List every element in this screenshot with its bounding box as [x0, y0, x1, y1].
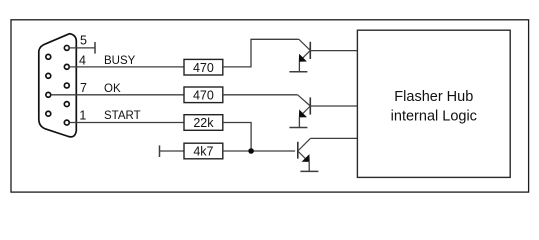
svg-text:BUSY: BUSY — [104, 55, 136, 67]
wire Q1 base to logic box — [310, 50, 357, 52]
svg-text:470: 470 — [193, 88, 214, 102]
DB9 connector J1 outline — [39, 34, 77, 137]
pin 3 circle — [64, 83, 69, 88]
resistor 4k7 — [184, 143, 223, 159]
wire resistor 470 to Q2 collector — [223, 94, 298, 96]
svg-text:470: 470 — [193, 61, 214, 75]
pin 5 circle — [64, 45, 69, 50]
pin 7 circle — [46, 92, 51, 97]
wire resistor 22k to junction — [223, 123, 251, 152]
pin 9 circle — [46, 54, 51, 59]
svg-text:OK: OK — [104, 83, 121, 95]
wire pin 7 to resistor 470 (OK) — [51, 94, 184, 96]
pin 6 circle — [46, 111, 51, 116]
wire terminal to resistor 4k7 — [160, 150, 185, 152]
wire resistor 4k7 to Q3 base — [223, 150, 295, 152]
resistor 470 (BUSY) — [184, 59, 223, 75]
svg-text:internal Logic: internal Logic — [391, 108, 477, 124]
open terminal bar at pin 5 — [94, 42, 96, 54]
transistor Q1 — [299, 39, 311, 72]
svg-text:5: 5 — [80, 34, 87, 48]
wire Q3 collector to logic box — [310, 137, 357, 139]
wire resistor 470 to Q1 collector — [223, 39, 299, 67]
resistor 22k — [184, 115, 223, 131]
wire pin 1 to resistor 22k (START) — [70, 122, 185, 124]
pin 1 circle — [64, 120, 69, 125]
transistor Q2 — [298, 95, 311, 128]
wire Q2 base to logic box — [310, 105, 357, 107]
pin 2 circle — [64, 102, 69, 107]
junction node — [248, 148, 254, 154]
svg-text:22k: 22k — [193, 116, 214, 130]
svg-text:Flasher Hub: Flasher Hub — [394, 89, 473, 105]
wire pin 4 to resistor 470 (BUSY) — [70, 66, 185, 68]
svg-text:4: 4 — [79, 53, 86, 67]
pin 4 circle — [64, 64, 69, 69]
resistor 470 (OK) — [184, 87, 223, 103]
open terminal bar at 4k7 input — [159, 145, 161, 157]
emitter terminal bar Q1 — [289, 71, 307, 73]
svg-text:7: 7 — [80, 81, 87, 95]
emitter terminal bar Q3 — [300, 170, 318, 172]
svg-text:4k7: 4k7 — [193, 145, 213, 159]
svg-text:1: 1 — [79, 108, 86, 122]
wire pin 5 stub — [70, 47, 96, 49]
svg-text:START: START — [104, 110, 141, 122]
Flasher Hub internal Logic box — [357, 30, 510, 177]
emitter terminal bar Q2 — [289, 127, 307, 129]
transistor Q3 — [298, 138, 311, 171]
pin 8 circle — [46, 73, 51, 78]
border frame — [11, 20, 529, 192]
